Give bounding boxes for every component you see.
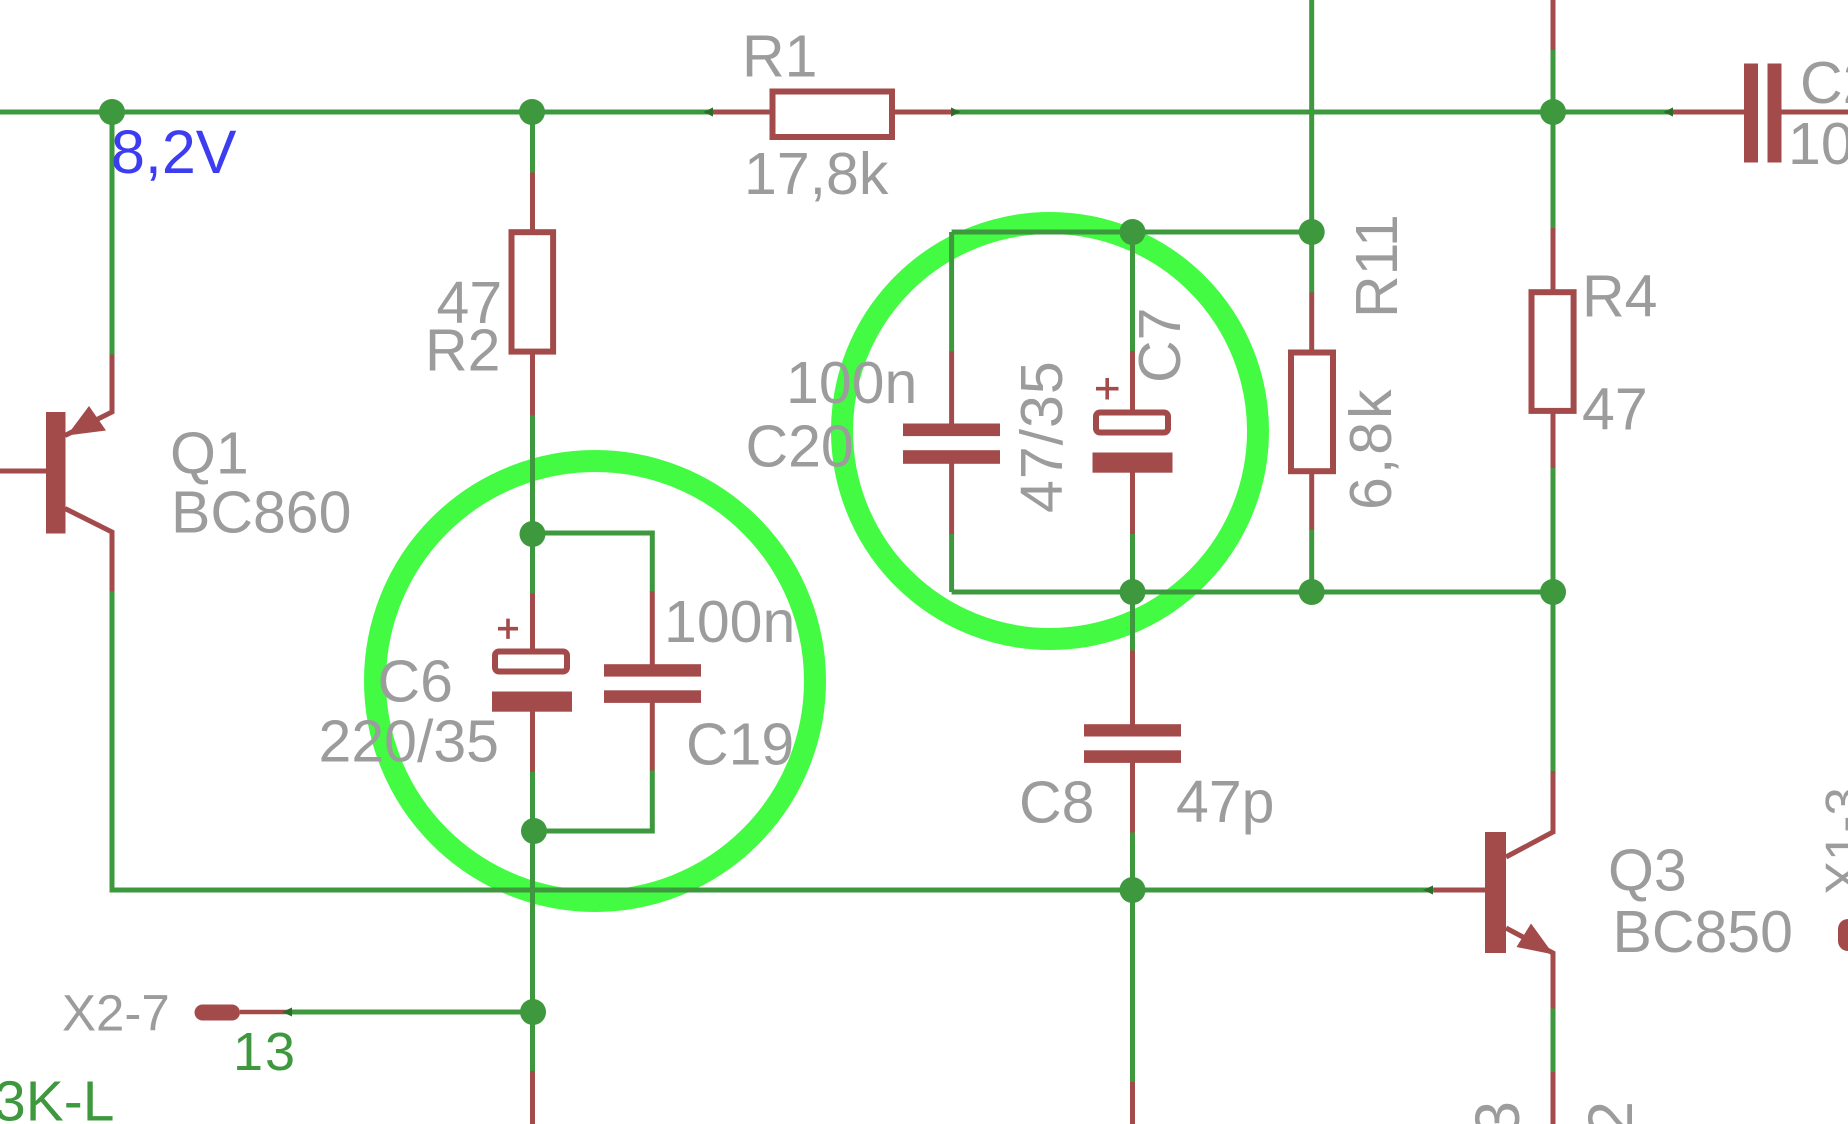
svg-text:100n: 100n xyxy=(664,589,795,655)
pin C2 right xyxy=(1782,110,1848,115)
capacitor C20 top plate xyxy=(903,424,1000,437)
pin C8 bottom xyxy=(1130,761,1135,833)
wire Q3 emitter red bottom xyxy=(1551,1072,1556,1124)
capacitor C8 top plate xyxy=(1084,724,1181,736)
svg-text:C19: C19 xyxy=(686,711,794,777)
svg-text:17,8k: 17,8k xyxy=(744,141,889,207)
pin C19 top xyxy=(650,592,655,667)
svg-text:BC850: BC850 xyxy=(1613,899,1793,965)
transistor Q3 emitter arrow xyxy=(1517,924,1554,955)
pin Q3 emitter xyxy=(1506,928,1553,1009)
svg-text:C7: C7 xyxy=(1127,308,1193,383)
svg-text:R1: R1 xyxy=(742,24,817,90)
resistor R11 body xyxy=(1291,353,1333,472)
svg-text:R4: R4 xyxy=(1582,264,1657,330)
capacitor C19 top plate xyxy=(604,664,701,676)
node junction C7 top xyxy=(1120,219,1146,245)
svg-text:C8: C8 xyxy=(1019,769,1094,835)
wire C8 bottom through base net down xyxy=(1130,832,1135,1082)
wire from top net down to R4 xyxy=(1551,112,1556,229)
pin Q1 base xyxy=(0,469,48,474)
pin Q3 collector xyxy=(1506,771,1553,857)
pin Q1 collector xyxy=(65,509,112,592)
pin C7 top xyxy=(1130,351,1135,411)
pin X2-7 lead xyxy=(240,1010,292,1015)
pin C20 bottom xyxy=(949,461,954,534)
capacitor C2 right plate xyxy=(1768,64,1782,163)
capacitor C6 negative plate xyxy=(492,692,572,712)
net end mark at R1 right pin xyxy=(951,108,961,117)
capacitor C19 bottom plate xyxy=(604,690,701,703)
highlight circle around C20/C7 xyxy=(842,223,1258,639)
svg-text:3: 3 xyxy=(1463,1101,1533,1124)
pin R2 top xyxy=(530,173,535,233)
node junction C7 bottom xyxy=(1120,579,1146,605)
svg-text:Q1: Q1 xyxy=(170,421,249,487)
wire C6 net red bottom xyxy=(530,1071,535,1124)
pin R11 top xyxy=(1309,293,1314,353)
wire from top net down to R2 xyxy=(530,112,535,173)
wire C7 bottom to lower net xyxy=(1130,534,1135,592)
resistor R2 body xyxy=(512,232,554,351)
wire down to C7 top xyxy=(1130,232,1135,352)
node junction C8 bottom / Q3 base xyxy=(1120,877,1146,903)
pin C6 bottom xyxy=(530,709,535,772)
wire from node 8,2V down to Q1 emitter xyxy=(110,112,115,355)
connector pin X2-7 xyxy=(195,1005,241,1021)
wire stub above R4 node xyxy=(1551,50,1556,112)
node junction top R2 xyxy=(519,99,545,125)
wire net down to Q3 collector xyxy=(1551,592,1556,772)
svg-text:BC860: BC860 xyxy=(171,479,351,545)
svg-text:C6: C6 xyxy=(378,648,453,714)
net end mark at C2 pin xyxy=(1663,108,1673,117)
wire net down to C8 top xyxy=(1130,592,1135,651)
svg-text:13: 13 xyxy=(233,1022,297,1082)
svg-text:3K-L: 3K-L xyxy=(0,1070,114,1124)
wire down to R11 top xyxy=(1309,232,1314,293)
capacitor C7 positive plate xyxy=(1096,413,1168,433)
svg-text:R2: R2 xyxy=(425,318,500,384)
wire R4 bottom to net xyxy=(1551,468,1556,593)
wire C8 net red bottom xyxy=(1130,1082,1135,1124)
wire R11 column up to top edge xyxy=(1309,0,1314,232)
svg-text:100n: 100n xyxy=(786,350,917,416)
node junction R11 top xyxy=(1299,219,1325,245)
node junction top R4 xyxy=(1540,99,1566,125)
pin R1 left xyxy=(712,110,772,115)
connector pin X1 right edge xyxy=(1838,919,1848,951)
svg-text:Q3: Q3 xyxy=(1608,837,1687,903)
node junction X2-7 xyxy=(520,999,546,1025)
svg-text:C20: C20 xyxy=(746,413,854,479)
capacitor C7 plus sign xyxy=(1096,378,1119,400)
node junction R11 bottom xyxy=(1299,579,1325,605)
node junction R4 bottom xyxy=(1540,579,1566,605)
pin C7 bottom xyxy=(1130,470,1135,534)
node junction C6/C19 bottom xyxy=(521,818,547,844)
pin C19 bottom xyxy=(650,701,655,771)
svg-text:47: 47 xyxy=(1582,377,1648,443)
svg-text:8,2V: 8,2V xyxy=(111,118,237,186)
wire C20 bottom to lower net xyxy=(949,534,954,593)
wire Q1 collector down and across to Q3 base xyxy=(112,591,1434,890)
svg-text:X1-3: X1-3 xyxy=(1815,787,1848,895)
wire C6 top node to C19 top xyxy=(533,533,653,592)
highlight circle around C6/C19 xyxy=(375,461,815,901)
wire C19 bottom to C6 bottom node xyxy=(534,770,652,831)
svg-text:6,8k: 6,8k xyxy=(1338,386,1404,510)
wire C20 top across to R11 top xyxy=(952,230,1312,235)
svg-text:100n: 100n xyxy=(1788,111,1848,177)
transistor Q1 base bar xyxy=(46,412,66,534)
pin Q1 emitter xyxy=(65,355,112,436)
svg-text:47/35: 47/35 xyxy=(1009,360,1075,513)
node junction top left 8,2V xyxy=(99,99,125,125)
resistor R1 body xyxy=(773,92,893,138)
wire X2-7 to node xyxy=(292,1010,533,1015)
node junction C6/C19 top xyxy=(520,521,546,547)
capacitor C8 bottom plate xyxy=(1084,750,1181,763)
wire net top horizontal right of R1 to C2 xyxy=(951,110,1673,115)
pin C6 top xyxy=(530,594,535,656)
net end mark at X2-7 pin xyxy=(282,1008,292,1017)
capacitor C20 bottom plate xyxy=(903,450,1000,464)
pin C20 top xyxy=(949,352,954,426)
wire R2 bottom to C6 top xyxy=(530,415,535,594)
capacitor C7 negative plate xyxy=(1093,453,1173,473)
transistor Q3 base bar xyxy=(1485,832,1506,953)
resistor R4 body xyxy=(1532,292,1574,411)
pin R1 right xyxy=(893,110,952,115)
pin C8 top xyxy=(1130,651,1135,727)
svg-text:X2-7: X2-7 xyxy=(62,985,170,1042)
capacitor C6 positive plate xyxy=(495,652,567,672)
wire R11 bottom to lower net xyxy=(1309,529,1314,592)
wire lower horizontal net C20 to R4 xyxy=(952,590,1553,595)
pin Q3 base xyxy=(1434,888,1487,893)
pin R11 bottom xyxy=(1309,472,1314,530)
wire net 8,2V top horizontal left of R1 xyxy=(0,110,712,115)
pin C2 left xyxy=(1673,110,1744,115)
capacitor C6 plus sign xyxy=(498,619,518,639)
wire Q3 emitter down xyxy=(1551,1008,1556,1073)
svg-text:220/35: 220/35 xyxy=(319,708,499,774)
pin R2 bottom xyxy=(530,352,535,416)
pin R4 bottom xyxy=(1551,412,1556,469)
wire down to C20 top xyxy=(949,232,954,352)
capacitor C2 left plate xyxy=(1744,64,1758,163)
svg-text:R11: R11 xyxy=(1344,214,1410,318)
svg-text:C21: C21 xyxy=(1800,50,1848,116)
transistor Q1 emitter arrow xyxy=(67,406,106,436)
wire C6 bottom down across to X2-7 node xyxy=(530,772,535,1072)
pin stub top edge above R4 xyxy=(1551,0,1556,50)
net end mark at R1 left pin xyxy=(703,108,713,117)
svg-text:2: 2 xyxy=(1576,1101,1646,1124)
net end mark at Q3 base pin xyxy=(1423,886,1433,895)
pin R4 top xyxy=(1551,228,1556,292)
svg-text:47p: 47p xyxy=(1176,769,1274,835)
